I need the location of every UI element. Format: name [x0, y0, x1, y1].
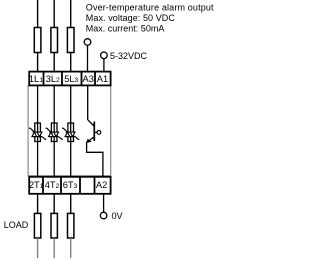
- svg-text:LOAD: LOAD: [4, 220, 29, 230]
- svg-text:A2: A2: [96, 180, 107, 190]
- svg-text:0V: 0V: [112, 211, 123, 221]
- svg-text:A1: A1: [97, 74, 108, 84]
- svg-text:Over-temperature alarm output: Over-temperature alarm output: [86, 3, 214, 13]
- svg-text:5-32VDC: 5-32VDC: [110, 51, 148, 61]
- svg-text:Max. current: 50mA: Max. current: 50mA: [86, 23, 165, 33]
- svg-text:Max. voltage: 50 VDC: Max. voltage: 50 VDC: [86, 13, 176, 23]
- svg-text:A3: A3: [83, 74, 94, 84]
